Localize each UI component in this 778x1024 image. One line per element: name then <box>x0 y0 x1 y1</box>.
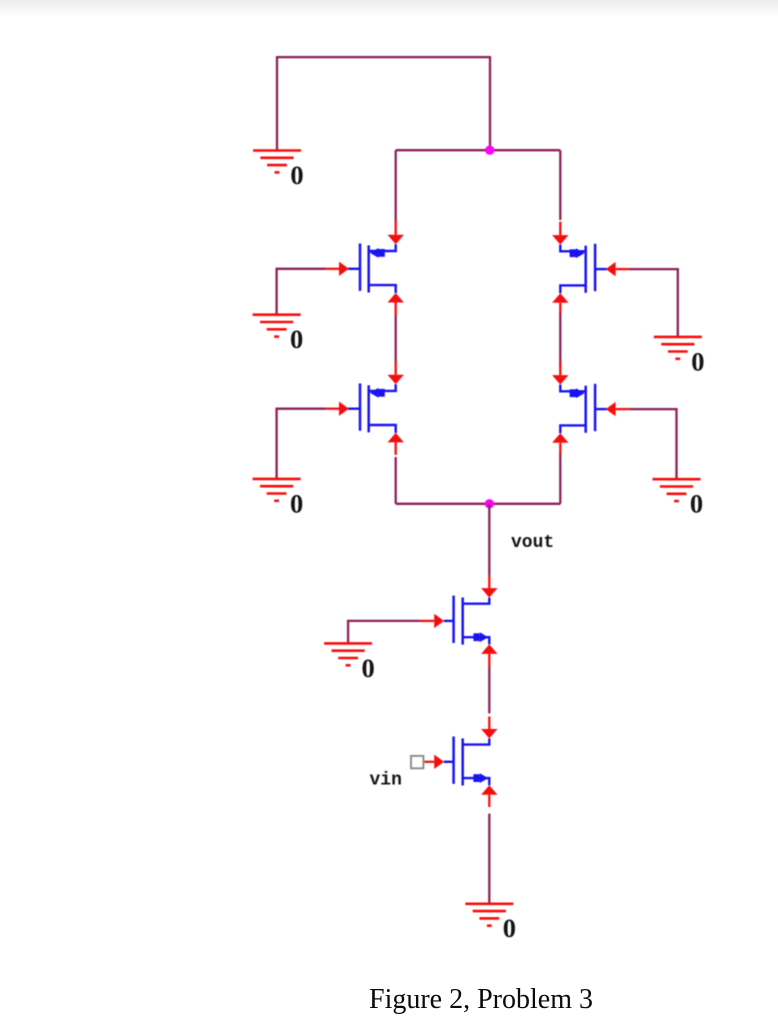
gate pin of M2 (red) <box>606 262 629 276</box>
transistor M4 (PMOS, mirrored) <box>560 384 607 434</box>
transistor M2 (PMOS, mirrored) <box>560 244 607 293</box>
node junction J1 (VDD net) <box>485 146 494 155</box>
substrate arrow of M5 <box>473 632 488 642</box>
wire from ground G1 up, across top, down to VDD node <box>277 57 490 150</box>
wire M1 gate to ground G2 <box>277 269 326 315</box>
substrate arrow of M4 <box>570 388 585 398</box>
wire M2 gate to ground G4 <box>629 269 678 337</box>
drain pin of M6 (red) <box>481 717 497 739</box>
svg-text:0: 0 <box>503 913 516 943</box>
gate pin of M3 (red) <box>326 402 349 416</box>
svg-text:0: 0 <box>290 160 303 190</box>
ground G7 <box>465 904 513 926</box>
gate pin of M4 (red) <box>606 402 629 416</box>
transistor M1 (PMOS) <box>348 244 396 294</box>
wire right rail to M2 drain <box>559 150 561 220</box>
node junction J2 (vout net) <box>485 499 494 508</box>
source pin of M4 (red) <box>552 433 568 455</box>
substrate arrow of M3 <box>370 388 385 398</box>
ground G3 <box>253 479 301 501</box>
wire M3 gate to ground G3 <box>277 409 326 479</box>
ground G6 <box>324 643 372 665</box>
ground G2 <box>253 315 301 337</box>
drain pin of M5 (red) <box>481 576 497 598</box>
transistor M3 (PMOS) <box>348 383 396 433</box>
drain pin of M2 (red) <box>552 222 568 245</box>
source pin of M5 (red) <box>481 644 497 666</box>
svg-text:vout: vout <box>511 533 554 553</box>
gate pin of M1 (red) <box>326 262 349 276</box>
ground G5 <box>653 479 701 501</box>
source pin of M6 (red) <box>481 785 497 807</box>
wire M1 source to M3 drain (left mid rail) <box>395 315 397 362</box>
ground G1 <box>253 151 301 173</box>
drain pin of M1 (red) <box>388 221 404 244</box>
source pin of M3 (red) <box>388 433 404 455</box>
wire M2 source to M4 drain (right mid rail) <box>559 313 561 366</box>
source pin of M1 (red) <box>388 293 404 315</box>
wire M5 source to M6 drain <box>488 666 490 713</box>
wire M3 source down to output rail <box>395 457 397 504</box>
svg-text:0: 0 <box>290 324 303 354</box>
wire vout node down to M5 drain <box>488 504 490 576</box>
gate pin of M5 (red) <box>420 614 444 628</box>
wire M4 gate to ground G5 <box>629 409 677 479</box>
wire VDD rail (horizontal) <box>396 149 561 151</box>
svg-text:0: 0 <box>362 653 375 683</box>
wire M4 source down to output rail <box>559 454 561 504</box>
ground G4 <box>654 337 702 359</box>
svg-text:0: 0 <box>690 489 703 519</box>
drain pin of M3 (red) <box>388 361 404 384</box>
substrate arrow of M2 <box>570 248 585 258</box>
svg-text:0: 0 <box>691 346 704 376</box>
wire M5 gate to ground G6 <box>348 621 420 644</box>
gate pin of M6 (red) <box>424 755 444 769</box>
wire output rail (horizontal, vout net) <box>396 503 561 505</box>
drain pin of M4 (red) <box>552 362 568 385</box>
transistor M5 (NMOS) <box>444 596 490 645</box>
wire left rail to M1 drain <box>395 150 397 221</box>
substrate arrow of M1 <box>370 248 385 258</box>
svg-text:vin: vin <box>370 770 402 790</box>
substrate arrow of M6 <box>473 773 488 783</box>
svg-text:0: 0 <box>290 488 303 518</box>
caption <box>369 986 777 1014</box>
source pin of M2 (red) <box>552 293 568 315</box>
input port square (vin) <box>411 756 423 768</box>
wire M6 source down to ground G7 <box>488 814 490 904</box>
transistor M6 (NMOS) <box>444 737 490 786</box>
